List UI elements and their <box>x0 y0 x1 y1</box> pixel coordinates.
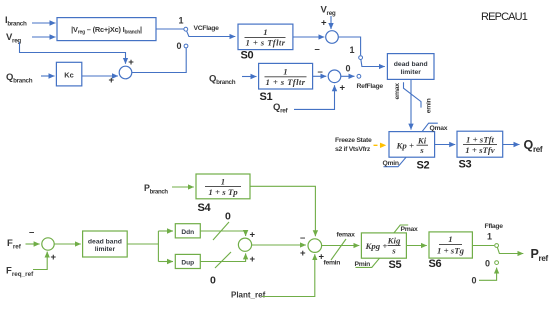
svg-text:Plant_ref: Plant_ref <box>231 291 266 300</box>
svg-text:1 + s Tfltr: 1 + s Tfltr <box>246 38 286 48</box>
wire VCFlage arm to S0 <box>187 31 236 37</box>
svg-text:1: 1 <box>448 234 452 244</box>
limit flag Pmin <box>355 258 380 268</box>
svg-text:–: – <box>318 67 323 78</box>
wire freeze orange dashed arrow <box>374 144 387 146</box>
label S6 <box>429 258 442 270</box>
svg-text:S0: S0 <box>241 50 254 62</box>
svg-text:dead band: dead band <box>394 61 428 68</box>
block dead band limiter green <box>83 231 128 257</box>
svg-text:Freeze State: Freeze State <box>335 137 372 144</box>
svg-text:+: + <box>128 57 134 68</box>
node Ibranch input label <box>5 15 27 28</box>
block Kc <box>56 62 81 86</box>
svg-text:1: 1 <box>487 232 492 242</box>
svg-text:Kpg +: Kpg + <box>365 241 388 251</box>
block magnitude |Vreg-(Rc+jXc)Ibranch| <box>57 18 156 41</box>
svg-text:Qbranch: Qbranch <box>209 74 236 87</box>
svg-text:limiter: limiter <box>400 69 421 76</box>
svg-text:emin: emin <box>426 98 433 113</box>
svg-text:Pbranch: Pbranch <box>144 183 168 195</box>
limit flag Pmax <box>394 225 418 233</box>
svg-text:Kp +: Kp + <box>396 140 414 150</box>
svg-text:1 + s Tfltr: 1 + s Tfltr <box>266 77 306 87</box>
svg-text:+: + <box>250 254 256 265</box>
svg-text:1: 1 <box>221 176 225 186</box>
summer C4 <box>42 238 57 263</box>
wire Fref to summer C4 <box>26 227 40 244</box>
switch Fflage contact 0 <box>485 259 499 269</box>
svg-text:0: 0 <box>225 211 231 223</box>
wire S3 to Qref output <box>503 144 520 146</box>
svg-text:Kig: Kig <box>387 236 401 246</box>
wire Qref up into summer C3 <box>294 83 346 110</box>
svg-text:1 + sTft: 1 + sTft <box>466 134 495 144</box>
svg-text:+: + <box>109 75 115 86</box>
node Plant_ref label <box>231 291 266 300</box>
svg-text:0: 0 <box>472 276 477 286</box>
wire Plant_ref up into summer C5 <box>262 254 315 296</box>
wire summer C3 to RefFlage contact 0 <box>341 75 355 77</box>
node Qbranch input label <box>6 72 33 85</box>
node Qref output label <box>524 138 543 154</box>
wire S0 to summer C2 <box>293 37 324 55</box>
svg-text:1 + s Tp: 1 + s Tp <box>208 187 238 197</box>
svg-text:Dup: Dup <box>181 259 194 266</box>
svg-text:0: 0 <box>177 41 182 51</box>
limiter mark emax emin <box>394 82 432 113</box>
block S6 transfer 1/(1+sTg) <box>429 232 472 258</box>
wire Ibranch to magnitude box <box>32 22 56 24</box>
svg-text:–: – <box>29 227 34 238</box>
switch Fflage contact 1 <box>487 232 499 248</box>
label Freeze State <box>335 137 372 153</box>
block S4 transfer 1/(1+sTp) <box>196 174 250 199</box>
svg-text:femin: femin <box>324 260 341 267</box>
wire Vreg drop to summer C1 <box>20 42 126 64</box>
title REPCAU1 <box>481 11 528 23</box>
summer C3 <box>328 70 341 83</box>
svg-text:–: – <box>315 44 320 55</box>
svg-text:Qref: Qref <box>273 102 288 115</box>
node Fref input label <box>7 238 22 251</box>
wire Fflage arm to Pref output <box>497 247 523 253</box>
svg-text:s: s <box>419 145 424 155</box>
block Ddn <box>175 224 200 238</box>
svg-text:1 + sTg: 1 + sTg <box>437 245 465 255</box>
wire S1 to summer C3 <box>313 67 327 78</box>
svg-text:Freq_ref: Freq_ref <box>6 266 34 279</box>
svg-text:S5: S5 <box>389 259 402 271</box>
wire Vreg to magnitude box <box>32 36 56 38</box>
svg-text:Pmax: Pmax <box>401 226 418 233</box>
node Qbranch lower label <box>209 74 236 87</box>
svg-text:s: s <box>391 246 396 256</box>
node Freq_ref input label <box>6 266 34 279</box>
wire S4 to summer C5 top <box>250 186 315 236</box>
svg-text:Pmin: Pmin <box>355 261 371 268</box>
svg-text:1: 1 <box>263 27 267 37</box>
wire dead band limiter down to S2 <box>410 80 412 130</box>
svg-text:Pref: Pref <box>531 247 549 263</box>
node Vreg input label <box>6 32 21 45</box>
label S3 <box>459 159 472 171</box>
svg-text:S6: S6 <box>429 258 442 270</box>
block S0 transfer 1/(1+sTfltr) <box>238 24 293 49</box>
switch VCFlage contact 0 <box>177 41 188 51</box>
svg-text:1 + sTfv: 1 + sTfv <box>465 145 495 155</box>
block Dup <box>175 254 200 268</box>
svg-text:0: 0 <box>210 275 216 287</box>
block dead band limiter blue <box>387 54 434 80</box>
svg-text:+: + <box>300 248 306 259</box>
svg-text:S1: S1 <box>260 91 273 103</box>
label Fflage <box>485 223 504 230</box>
limit slash and zero above Ddn <box>213 211 231 241</box>
svg-text:+: + <box>340 83 346 94</box>
svg-text:0: 0 <box>485 259 490 269</box>
svg-text:–: – <box>300 233 305 244</box>
svg-text:S3: S3 <box>459 159 472 171</box>
label VCFlage <box>194 25 220 32</box>
wire S6 to Fflage contact 1 <box>472 245 494 247</box>
wire Dup to summer CS1 <box>200 253 255 265</box>
wire dead band limiter to branch point <box>127 243 158 245</box>
node Pbranch input label <box>144 183 168 195</box>
svg-text:Ibranch: Ibranch <box>5 15 27 28</box>
svg-text:+: + <box>250 230 256 241</box>
limit slash and zero below Dup <box>210 252 231 287</box>
svg-text:0: 0 <box>346 64 351 74</box>
summer C1 <box>109 57 135 86</box>
wire Vreg down into summer C2 <box>321 16 331 29</box>
svg-text:Vreg: Vreg <box>321 5 336 18</box>
node constant zero <box>472 276 477 286</box>
label S2 <box>417 160 430 172</box>
svg-text:S4: S4 <box>198 202 212 214</box>
svg-text:REPCAU1: REPCAU1 <box>481 11 528 23</box>
wire branch vertical <box>157 231 159 262</box>
wire Qbranch to Kc <box>41 75 55 77</box>
wire summer C2 to RefFlage contact 1 <box>338 37 360 55</box>
svg-text:Qbranch: Qbranch <box>6 72 33 85</box>
label S4 <box>198 202 212 214</box>
svg-text:RefFlage: RefFlage <box>357 83 384 90</box>
block S2 PI controller Kp+Ki/s <box>389 132 435 158</box>
limit flag Qmin <box>383 157 407 167</box>
limit slash femax femin <box>324 232 356 267</box>
svg-text:1: 1 <box>350 45 355 55</box>
node Pref output label <box>531 247 549 263</box>
svg-text:s2 if VtsVfrz: s2 if VtsVfrz <box>335 146 371 153</box>
svg-text:Ki: Ki <box>417 135 427 145</box>
wire S5 to S6 <box>406 245 426 247</box>
node Qref label <box>273 102 288 115</box>
wire summer CS1 to summer C5 <box>252 244 306 246</box>
wire Qbranch to S1 <box>242 76 257 78</box>
svg-text:Qmax: Qmax <box>430 125 448 132</box>
label S0 <box>241 50 254 62</box>
wire constant zero up into Fflage contact 0 <box>479 268 497 281</box>
svg-text:Fref: Fref <box>7 238 22 251</box>
svg-text:1: 1 <box>179 16 184 26</box>
switch RefFlage contact 0 <box>346 64 361 79</box>
wire S2 to S3 <box>435 144 456 146</box>
svg-text:+: + <box>51 252 57 263</box>
wire summer C4 to dead band limiter <box>54 243 81 245</box>
svg-text:emax: emax <box>394 83 401 100</box>
svg-text:dead band: dead band <box>88 238 122 245</box>
label S1 <box>260 91 273 103</box>
wire summer C1 to VCFlage contact 0 <box>132 48 186 72</box>
svg-text:1: 1 <box>283 66 287 76</box>
label RefFlage <box>357 83 384 90</box>
svg-text:Fflage: Fflage <box>485 223 504 230</box>
summer CS1 <box>238 238 251 251</box>
svg-text:Kc: Kc <box>64 70 73 79</box>
svg-text:Qref: Qref <box>524 138 543 154</box>
switch RefFlage contact 1 <box>350 45 363 60</box>
svg-text:VCFlage: VCFlage <box>194 25 220 32</box>
block S3 lead-lag (1+sTft)/(1+sTfv) <box>457 131 503 157</box>
svg-text:+: + <box>321 18 327 29</box>
wire Freq_ref up into summer C4 <box>33 252 47 270</box>
wire summer C5 to S5 <box>322 245 360 247</box>
node Vreg upper label <box>321 5 336 18</box>
wire magnitude box to VCFlage contact 1 <box>156 28 184 30</box>
wire Kc to summer C1 <box>82 75 118 77</box>
svg-text:Qmin: Qmin <box>383 160 399 167</box>
switch VCFlage contact 1 <box>179 16 188 32</box>
wire Ddn to summer CS1 <box>200 230 255 241</box>
block S1 transfer 1/(1+sTfltr) <box>259 63 313 89</box>
limit flag Qmax <box>422 123 448 132</box>
svg-text:limiter: limiter <box>95 246 116 253</box>
wire RefFlage arm to dead band limiter <box>361 60 385 67</box>
summer C2 <box>326 31 339 44</box>
svg-text:S2: S2 <box>417 160 430 172</box>
wire Pbranch to S4 <box>172 186 194 188</box>
summer C5 <box>300 233 325 263</box>
svg-text:Ddn: Ddn <box>181 229 194 236</box>
wire branch to Ddn <box>158 230 173 232</box>
block S5 PI controller Kpg+Kig/s <box>361 233 406 258</box>
wire branch to Dup <box>158 261 173 263</box>
label S5 <box>389 259 402 271</box>
svg-text:femax: femax <box>337 232 356 239</box>
